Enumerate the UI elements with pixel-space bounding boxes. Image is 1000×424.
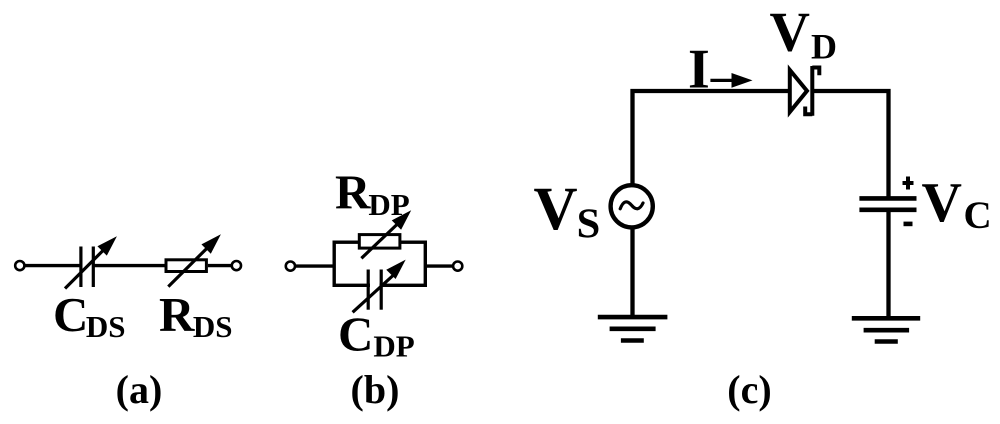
R_DP variable arrow: [361, 210, 411, 258]
C_DP variable arrow: [353, 260, 406, 313]
svg-text:(b): (b): [351, 367, 400, 412]
ground right: [852, 318, 920, 341]
wire: [630, 228, 634, 318]
svg-text:I: I: [688, 39, 710, 101]
current arrow: [710, 73, 752, 88]
diode schottky top hook: [812, 68, 819, 76]
capacitor C_DP: [368, 270, 381, 310]
terminal right (a): [232, 261, 241, 270]
wire: [427, 264, 454, 267]
source V_S: [611, 185, 653, 227]
C_DS variable arrow: [65, 236, 117, 288]
diode cathode bar: [810, 66, 814, 116]
terminal left (a): [15, 261, 24, 270]
diode V_D triangle: [790, 70, 807, 112]
resistor R_DP: [359, 235, 400, 249]
ground left: [598, 317, 668, 340]
svg-text:(a): (a): [116, 367, 163, 412]
wire: [93, 264, 164, 267]
wire top left: [633, 91, 790, 185]
diode schottky bottom hook: [805, 107, 812, 115]
wire: [24, 264, 81, 267]
capacitor V_C: [859, 198, 916, 209]
resistor R_DS: [166, 260, 206, 272]
R_DS variable arrow: [168, 234, 221, 286]
terminal left (b): [286, 262, 295, 271]
terminal right (b): [453, 262, 462, 271]
wire: [295, 264, 335, 267]
wire: [208, 264, 232, 267]
minus sign: [904, 222, 913, 227]
plus sign: [903, 177, 914, 190]
svg-text:(c): (c): [727, 367, 771, 412]
wire: [886, 210, 890, 318]
sine tilde: [620, 202, 643, 209]
parallel loop wire: [334, 242, 425, 285]
capacitor C_DS: [81, 247, 93, 288]
wire top right: [812, 91, 888, 198]
